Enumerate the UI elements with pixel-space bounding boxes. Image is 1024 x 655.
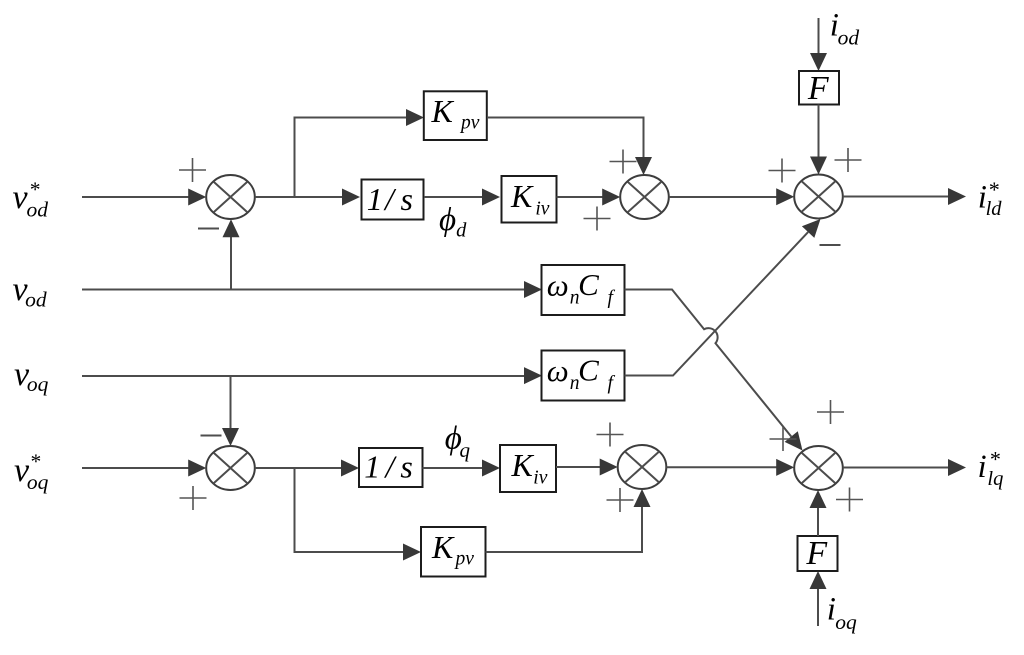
svg-text:K: K xyxy=(511,447,535,483)
wire i_od input down to F block xyxy=(810,18,827,71)
svg-text:i: i xyxy=(978,449,987,485)
wire branch down to Kpv block (q-axis) xyxy=(295,468,422,561)
wire S2 output into summing junction S3 xyxy=(669,188,794,205)
svg-text:ω: ω xyxy=(547,353,569,388)
sign plus at S5 lower input xyxy=(607,488,634,512)
wire Kiv output into summing junction S2 xyxy=(557,189,621,206)
wire S4 output to integrator 1/s (q-axis) xyxy=(255,460,359,477)
node label v*_oq xyxy=(14,450,49,495)
svg-text:F: F xyxy=(807,70,830,107)
node label i_od xyxy=(830,8,860,50)
svg-text:pv: pv xyxy=(454,549,475,570)
svg-text:1: 1 xyxy=(367,181,383,217)
svg-text:K: K xyxy=(431,93,455,129)
sign plus at summing junction S1 input xyxy=(179,158,206,182)
svg-text:pv: pv xyxy=(459,113,480,134)
sign minus at S4 top feedback xyxy=(201,435,222,437)
sign plus at S6 diagonal input xyxy=(817,400,844,424)
wire v_oq input to wnCf (q-axis) xyxy=(82,367,542,384)
wire F output up into S6 xyxy=(810,490,827,536)
svg-text:F: F xyxy=(805,535,828,572)
svg-text:oq: oq xyxy=(27,470,49,494)
block Kpv (q-axis) xyxy=(421,527,486,577)
wire v*_od input xyxy=(82,189,206,206)
summing junction S1 xyxy=(206,175,255,219)
sign plus at S5 upper input xyxy=(597,423,624,447)
sign plus at S4 input xyxy=(180,486,207,510)
svg-text:d: d xyxy=(456,219,467,241)
node label i*_lq xyxy=(978,447,1004,491)
block wnCf (d-axis) xyxy=(542,265,625,315)
block Kpv (d-axis) xyxy=(424,91,487,140)
summing junction S4 xyxy=(206,446,255,490)
sign minus at summing junction S1 feedback xyxy=(198,228,219,230)
sign plus at S6 lower input xyxy=(836,488,863,512)
sign plus at S3 top input xyxy=(835,148,862,172)
wire Kpv output down into summing junction S2 xyxy=(487,118,652,176)
svg-text:C: C xyxy=(578,267,599,302)
svg-text:C: C xyxy=(578,353,599,388)
svg-text:K: K xyxy=(510,178,534,214)
wire 1/s to Kiv (d-axis) xyxy=(424,189,500,206)
svg-text:iv: iv xyxy=(533,467,547,488)
wire i_oq input up to F block xyxy=(810,571,827,626)
summing junction S2 xyxy=(620,175,669,219)
wire wnCf q-axis output crossing up into S3 xyxy=(625,219,821,376)
wire S3 output to i*_ld xyxy=(843,188,966,205)
sign plus at S2 lower input xyxy=(584,207,611,231)
svg-text:ϕ: ϕ xyxy=(439,202,456,238)
svg-text:ω: ω xyxy=(547,268,569,303)
node label v_od xyxy=(13,271,47,312)
node label v_oq xyxy=(14,356,49,396)
block Kiv (d-axis) xyxy=(502,176,557,223)
svg-text:oq: oq xyxy=(27,372,49,396)
wire F output down into S3 xyxy=(810,105,827,175)
wire v_oq feedback down into S4 xyxy=(222,376,239,446)
block 1/s integrator (q-axis) xyxy=(359,448,423,487)
svg-text:od: od xyxy=(27,197,49,221)
wire 1/s to Kiv (q-axis) xyxy=(423,460,501,477)
node label v*_od xyxy=(13,178,49,222)
sign plus at S3 left input xyxy=(769,159,796,183)
svg-text:iv: iv xyxy=(535,199,549,220)
svg-text:q: q xyxy=(460,438,471,462)
svg-text:K: K xyxy=(431,529,455,565)
svg-text:od: od xyxy=(25,288,47,312)
svg-text:ld: ld xyxy=(986,198,1003,220)
wire v*_oq input xyxy=(82,460,206,477)
wire v_od input to wnCf (d-axis) xyxy=(82,281,542,298)
node label i*_ld xyxy=(978,177,1003,220)
wire wnCf d-axis output crossing down to S6 (with hop) xyxy=(625,290,803,451)
svg-text:od: od xyxy=(838,26,860,50)
summing junction S5 xyxy=(618,445,667,489)
block wnCf (q-axis) xyxy=(542,351,625,401)
node label phi_d xyxy=(439,202,467,241)
svg-text:lq: lq xyxy=(987,468,1003,490)
sign plus at S6 left input xyxy=(770,427,797,451)
node label phi_q xyxy=(445,421,471,462)
block Kiv (q-axis) xyxy=(500,445,556,492)
wire Kpv output up into summing junction S5 xyxy=(486,489,651,552)
wire S5 output into summing junction S6 xyxy=(666,459,794,476)
block 1/s integrator (d-axis) xyxy=(362,180,424,220)
wire S1 output to integrator 1/s (d-axis) xyxy=(255,189,360,206)
svg-text:s: s xyxy=(400,449,412,485)
wire branch up to Kpv block (d-axis) xyxy=(295,109,425,197)
wire S6 output to i*_lq xyxy=(843,459,966,476)
sign plus at S2 upper input xyxy=(610,150,637,174)
block F (d-axis) xyxy=(799,70,839,107)
wire v_od feedback up into S1 xyxy=(223,219,240,289)
svg-text:oq: oq xyxy=(835,610,857,634)
svg-text:s: s xyxy=(401,181,413,217)
sign minus at S3 lower input xyxy=(820,244,841,246)
node label i_oq xyxy=(827,592,857,635)
summing junction S3 xyxy=(794,175,843,219)
wire Kiv output into summing junction S5 xyxy=(556,459,618,476)
block F (q-axis) xyxy=(798,535,838,572)
svg-text:1: 1 xyxy=(364,449,380,485)
summing junction S6 xyxy=(794,446,843,490)
